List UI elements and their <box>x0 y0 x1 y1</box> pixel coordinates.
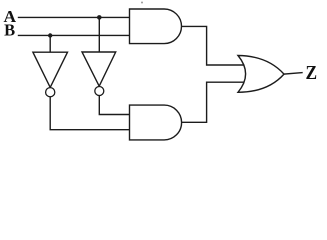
and-gate U3 (top) <box>130 9 182 44</box>
scan speck artifact <box>141 2 143 4</box>
node junction dot on B line <box>48 33 52 37</box>
or-gate U5 <box>238 56 284 93</box>
wire inverter U2 output to AND gate U4 upper input <box>99 96 129 115</box>
wire AND gate U4 output to OR gate U5 lower input <box>182 82 246 122</box>
inverter U1 (left NOT gate) triangle <box>33 52 68 87</box>
wire A tap down to inverter U2 <box>98 17 100 52</box>
inverter U2 output bubble <box>95 87 104 96</box>
wire B tap down to inverter U1 <box>49 35 51 52</box>
node junction dot on A line <box>97 15 102 20</box>
wire B line <box>19 34 130 36</box>
inverter U1 output bubble <box>46 88 55 97</box>
wire AND gate U3 output to OR gate U5 upper input <box>182 26 246 65</box>
wire A line <box>19 16 130 18</box>
svg-text:Z: Z <box>306 62 318 84</box>
wire OR gate U5 output to Z <box>284 73 302 75</box>
inverter U2 (right NOT gate) triangle <box>82 52 116 86</box>
wire inverter U1 output to AND gate U4 lower input <box>50 97 129 130</box>
and-gate U4 (bottom) <box>130 105 182 140</box>
svg-text:B: B <box>4 21 15 40</box>
